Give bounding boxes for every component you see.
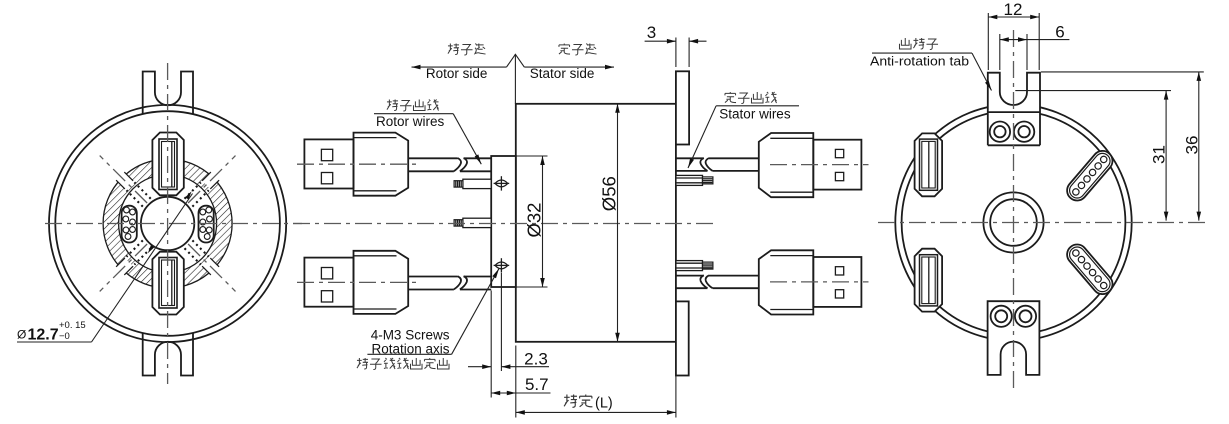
rotor flange plate (491, 156, 516, 287)
rotor terminal pin 2 (463, 218, 491, 227)
svg-text:6: 6 (1055, 23, 1064, 42)
svg-text:Stator wires: Stator wires (719, 107, 791, 122)
USB plug shell (813, 140, 861, 190)
svg-text:36: 36 (1182, 136, 1201, 155)
tab roller circles (top) (990, 122, 1010, 142)
svg-text:+0. 15: +0. 15 (59, 320, 86, 331)
connector overmold body (354, 251, 409, 314)
label: anti-rotation tab (899, 38, 911, 49)
cable with break (408, 276, 457, 278)
dimension 2.3 (490, 291, 492, 398)
right view inner housing circle (902, 111, 1126, 335)
bottom brush slot (152, 252, 183, 315)
connector overmold body (759, 133, 814, 197)
connector overmold body (759, 250, 814, 314)
svg-text:12.7: 12.7 (28, 327, 59, 344)
dimension 5.7 (515, 346, 517, 418)
svg-text:Rotor side: Rotor side (426, 66, 488, 81)
right view: stator end face (870, 0, 1208, 390)
main rotation axis centerline (293, 223, 714, 225)
upper-left port slot (915, 133, 943, 196)
svg-text:4-M3 Screws: 4-M3 Screws (371, 327, 450, 342)
center bore circles (983, 192, 1043, 252)
bottom mounting strip (side view) (676, 301, 689, 375)
left view vertical centerline (167, 63, 169, 384)
hatched flange ring (103, 159, 232, 288)
svg-text:31: 31 (1149, 145, 1168, 164)
connector centerline (297, 281, 418, 283)
dimension diameter 56 (617, 104, 619, 342)
dimension 3 (tab thickness) (675, 38, 677, 68)
left wire-bundle capsule (122, 206, 137, 243)
rotor screw hole marker (top) (494, 176, 510, 190)
right wire-bundle capsule (199, 206, 214, 243)
leader arrowheads on bore circle (148, 245, 154, 253)
top anti-rotation tab (front) (143, 72, 193, 115)
dimension length L (675, 346, 677, 418)
stator terminal pin 1 (676, 175, 703, 185)
svg-text:(L): (L) (595, 396, 613, 412)
lower-left port slot (915, 249, 943, 312)
svg-text:Ø56: Ø56 (599, 176, 620, 211)
dimension diameter 32 (516, 155, 548, 157)
connector centerline (297, 163, 418, 165)
cable with break (676, 157, 704, 159)
4x M3 counterbore holes on 45deg diagonals (202, 172, 219, 189)
connector centerline (770, 281, 869, 283)
connector centerline (770, 164, 869, 166)
lower-right wire hole capsule (1063, 240, 1117, 298)
left view horizontal centerline (45, 223, 302, 225)
connector overmold body (354, 133, 409, 196)
left view outer housing circle (49, 105, 286, 342)
cable with break (676, 275, 704, 277)
svg-text:Anti-rotation tab: Anti-rotation tab (870, 55, 969, 69)
middle view: side cross-section (293, 23, 869, 418)
svg-text:Ø: Ø (17, 328, 26, 342)
svg-text:3: 3 (647, 23, 656, 42)
right view vertical centerline (1013, 30, 1015, 390)
bore diameter leader line (92, 194, 193, 343)
label: stator wires (725, 92, 736, 103)
anti-rotation tab plate with U slot (top) (988, 73, 1040, 146)
tab roller circles (bottom) (991, 306, 1012, 327)
upper-right wire hole capsule (1063, 147, 1117, 205)
right view horizontal centerline (878, 222, 1208, 224)
dimension 12 (tab width) (987, 13, 989, 70)
center bore (diam 12.7) (141, 197, 194, 250)
svg-text:5.7: 5.7 (525, 375, 549, 394)
bottom bracket with U slot fork (988, 301, 1040, 375)
svg-text:Stator side: Stator side (530, 66, 595, 81)
rotor terminal pin 1 (463, 179, 491, 188)
hidden slot edges (dotted) along diagonals (185, 182, 201, 198)
label: rotor side (448, 43, 459, 54)
rotor screw hole marker (bottom) (494, 258, 510, 272)
USB plug shell (813, 257, 861, 307)
stator terminal pin 2 (676, 261, 703, 271)
svg-text:2.3: 2.3 (524, 350, 548, 369)
right view outer housing circle (895, 104, 1131, 340)
USB plug shell (304, 258, 353, 307)
dimension 6 (slot width) (999, 34, 1001, 70)
label: rotor wires (387, 99, 398, 110)
top brush slot (152, 133, 183, 196)
stator body rectangle (516, 104, 676, 342)
svg-text:Rotor wires: Rotor wires (376, 114, 445, 129)
diagonal centerlines at 45deg (188, 156, 235, 203)
bottom anti-rotation tab (front) (143, 333, 193, 376)
anti-rotation tab (side view, top) (676, 71, 689, 144)
dimension 31 (1015, 90, 1171, 92)
rotor/stator boundary symbol (514, 54, 516, 104)
label: stator side (559, 43, 570, 54)
dimension 36 (1041, 71, 1204, 73)
cable with break (408, 157, 457, 159)
USB plug shell (304, 139, 353, 188)
left view: rotor end face of slip ring (17, 63, 302, 384)
svg-text:−0: −0 (59, 331, 70, 342)
svg-text:Ø32: Ø32 (523, 203, 544, 238)
label: length (L) (564, 395, 577, 408)
svg-text:12: 12 (1004, 0, 1023, 19)
left view inner housing circle (55, 111, 280, 336)
